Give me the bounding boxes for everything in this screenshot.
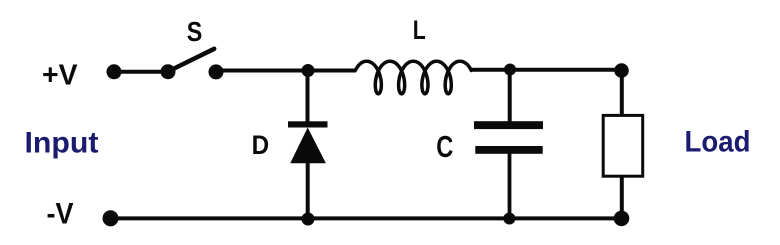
wire switch to diode node bbox=[216, 69, 308, 73]
switch throw dot bbox=[209, 64, 224, 79]
wire capacitor node to load node bbox=[510, 68, 622, 72]
wire node to cathode bbox=[306, 71, 310, 124]
wire load bottom to bottom rail bbox=[620, 177, 624, 218]
diode D bbox=[252, 71, 328, 220]
switch S bbox=[161, 16, 224, 79]
node -V terminal dot bbox=[103, 210, 119, 226]
capacitor C bbox=[436, 70, 543, 219]
load resistor bbox=[603, 71, 750, 219]
wire node to top plate bbox=[508, 70, 512, 122]
wire anode to bottom rail bbox=[306, 162, 310, 219]
switch arm bbox=[168, 49, 214, 72]
capacitor top plate bbox=[474, 121, 543, 129]
wire bottom plate to bottom rail bbox=[508, 153, 512, 219]
wire diode node to inductor bbox=[308, 69, 356, 73]
svg-text:-V: -V bbox=[47, 198, 74, 231]
node diode top junction bbox=[302, 64, 315, 77]
node capacitor top junction bbox=[504, 64, 516, 76]
wire inductor to capacitor node bbox=[470, 68, 510, 72]
wire top rail left (+V dot to switch pole) bbox=[114, 70, 168, 74]
node capacitor bottom junction bbox=[503, 213, 515, 225]
svg-text:C: C bbox=[436, 129, 453, 164]
load box bbox=[603, 115, 643, 176]
node diode bottom junction bbox=[302, 213, 315, 226]
switch pole dot bbox=[161, 64, 176, 79]
diode cathode bar bbox=[288, 121, 328, 127]
capacitor bottom plate bbox=[475, 146, 542, 154]
diode triangle (anode) bbox=[290, 128, 326, 164]
node +V terminal dot bbox=[107, 64, 122, 79]
node load top junction bbox=[614, 63, 629, 78]
inductor L bbox=[355, 15, 471, 94]
svg-text:+V: +V bbox=[42, 59, 78, 91]
svg-text:S: S bbox=[187, 16, 203, 47]
node load bottom junction bbox=[614, 211, 630, 227]
svg-text:Input: Input bbox=[25, 127, 99, 160]
wire bottom rail bbox=[110, 216, 622, 220]
svg-text:D: D bbox=[252, 130, 270, 160]
wire node to load top bbox=[620, 71, 624, 116]
svg-text:L: L bbox=[413, 15, 426, 45]
svg-text:Load: Load bbox=[685, 126, 751, 159]
